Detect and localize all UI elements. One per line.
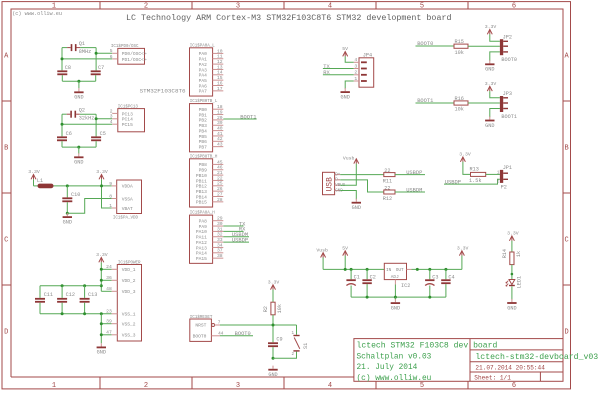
wire ADJ to gnd rail — [394, 285, 396, 298]
ground — [97, 343, 106, 355]
resistor R14 — [510, 252, 514, 265]
wire C11 stem top — [39, 286, 41, 298]
svg-text:PB4: PB4 — [199, 128, 208, 134]
svg-text:D: D — [4, 329, 8, 337]
wire GND pin down — [340, 191, 356, 200]
capacitor C13 — [80, 298, 90, 303]
wire C12 stem top — [61, 286, 63, 298]
svg-text:USBDP: USBDP — [232, 237, 248, 243]
svg-text:32: 32 — [217, 232, 223, 238]
ground — [485, 60, 494, 72]
svg-text:8MHz: 8MHz — [79, 49, 91, 55]
title block outer box — [354, 339, 563, 382]
wire L1 to VDDA pin — [54, 185, 112, 187]
wire VSS_2 — [101, 323, 111, 325]
svg-text:L1: L1 — [37, 178, 43, 184]
svg-text:PB11: PB11 — [196, 178, 207, 184]
svg-text:34: 34 — [217, 242, 223, 248]
wire gnd rail — [62, 80, 95, 82]
svg-text:15: 15 — [217, 75, 223, 81]
svg-text:VDDA: VDDA — [122, 184, 133, 190]
junction — [77, 80, 80, 83]
svg-text:16: 16 — [217, 80, 223, 86]
supply 3.3V arrow for VDD — [96, 252, 108, 262]
svg-text:PA4: PA4 — [199, 73, 208, 79]
supply 3.3V arrow — [485, 81, 497, 91]
supply 3.3V arrow for VBAT — [96, 169, 108, 179]
svg-text:PB3: PB3 — [199, 123, 208, 129]
junction — [61, 123, 64, 126]
svg-text:21. July 2014: 21. July 2014 — [357, 364, 418, 372]
wire output rail — [412, 268, 462, 270]
wire 5V stem — [344, 256, 346, 270]
svg-text:45: 45 — [217, 159, 223, 165]
pin rows PA8-PA15 — [196, 216, 223, 262]
jumper JP2 — [500, 39, 508, 55]
pin ADJ stub — [394, 280, 396, 285]
switch S1 contacts — [293, 335, 299, 352]
svg-text:VBAT: VBAT — [122, 206, 133, 212]
svg-text:43: 43 — [217, 142, 223, 148]
svg-text:12: 12 — [217, 59, 223, 65]
resistor R2 — [271, 302, 275, 315]
svg-text:GND: GND — [507, 305, 516, 311]
svg-text:PA14: PA14 — [196, 251, 207, 257]
wire VDD_3 — [101, 290, 111, 292]
svg-text:PA10: PA10 — [196, 229, 207, 235]
wire C11 stem bottom — [39, 303, 41, 314]
svg-text:5: 5 — [110, 48, 113, 54]
svg-text:32kHz: 32kHz — [79, 116, 95, 122]
wire R2 to NRST node — [272, 315, 274, 343]
junction — [416, 268, 419, 271]
svg-text:PA12: PA12 — [196, 240, 207, 246]
svg-text:Sheet: 1/1: Sheet: 1/1 — [474, 375, 511, 382]
svg-text:PA3: PA3 — [199, 67, 208, 73]
svg-text:9: 9 — [109, 181, 112, 187]
USB pins D+ D- VBUS GND — [335, 173, 346, 193]
junction — [83, 312, 86, 315]
svg-text:PC13: PC13 — [122, 111, 133, 117]
svg-text:C2: C2 — [370, 275, 376, 281]
capacitor C11 — [35, 298, 45, 303]
svg-text:R12: R12 — [383, 196, 392, 202]
wire ground rail — [351, 296, 446, 298]
wire 3.3V to R13 — [463, 162, 471, 175]
wire OSC_IN horizontal — [62, 47, 67, 49]
wire VBUS to Vusb — [340, 164, 356, 186]
svg-text:18: 18 — [217, 104, 223, 110]
svg-text:VSS_2: VSS_2 — [122, 322, 136, 328]
wire C2 stem top — [366, 269, 368, 279]
connector JP4 box — [359, 58, 374, 87]
wire C2 to gnd rail — [366, 284, 368, 297]
title block right column row lines — [470, 349, 563, 351]
svg-text:PB0: PB0 — [199, 107, 208, 113]
svg-text:S1: S1 — [303, 343, 309, 349]
svg-text:C12: C12 — [66, 292, 75, 298]
svg-text:NRST: NRST — [195, 323, 206, 329]
junction — [95, 52, 98, 55]
pin rows PA0-PA7 — [199, 48, 224, 94]
svg-text:3.3V: 3.3V — [485, 81, 497, 87]
svg-text:IC1$PA_VDD: IC1$PA_VDD — [113, 216, 139, 221]
wire R13 to JP1 — [486, 173, 500, 175]
capacitor C2 — [362, 279, 371, 284]
svg-text:13: 13 — [217, 64, 223, 70]
regulator IC2 box — [384, 263, 406, 279]
svg-text:3: 3 — [110, 114, 113, 120]
title block divider vertical — [469, 339, 471, 382]
svg-text:VSS_3: VSS_3 — [122, 333, 136, 339]
svg-text:PA1: PA1 — [199, 57, 208, 63]
wire pin 1 to ground — [345, 81, 354, 89]
svg-text:VSS_1: VSS_1 — [122, 312, 136, 318]
ground — [74, 153, 83, 165]
wire right vertical to C7 — [95, 48, 97, 71]
wire net RX — [223, 230, 243, 232]
svg-text:D: D — [564, 329, 568, 337]
svg-text:4: 4 — [354, 57, 357, 63]
svg-text:6: 6 — [110, 54, 113, 60]
wire RX to pin 2 — [323, 74, 354, 76]
pin 44 stub — [211, 335, 220, 337]
wire net TX — [223, 225, 243, 227]
svg-text:GND: GND — [268, 372, 277, 378]
svg-text:5V: 5V — [342, 245, 348, 251]
svg-text:IC2: IC2 — [401, 283, 410, 289]
IC1 VDDA block box — [117, 180, 142, 214]
capacitor C5 — [91, 136, 101, 141]
junction — [61, 57, 64, 60]
wire left vertical to C8 — [61, 48, 63, 71]
capacitor C7 — [91, 70, 101, 75]
svg-text:Vusb: Vusb — [343, 155, 355, 161]
JP4 pins 1-4 — [354, 57, 367, 82]
svg-text:3.3V: 3.3V — [28, 169, 40, 175]
capacitor C3 polarized — [425, 279, 434, 285]
supply 5V arrow — [342, 46, 348, 56]
capacitor C10 — [62, 197, 72, 202]
svg-text:2: 2 — [144, 2, 148, 10]
wire 3.3V to R2 — [272, 290, 274, 303]
wire 3.3V to VBAT — [102, 179, 112, 208]
wire D- to R12 — [340, 180, 384, 192]
svg-text:8: 8 — [109, 193, 112, 199]
junction — [272, 324, 275, 327]
svg-text:22: 22 — [217, 175, 223, 181]
wire VDD_2 — [101, 279, 111, 281]
svg-text:PB10: PB10 — [196, 173, 207, 179]
svg-text:C9: C9 — [276, 337, 282, 343]
svg-text:C6: C6 — [66, 131, 72, 137]
IC1 PB0-PB7 block box — [190, 104, 213, 152]
wire VSS_3 — [101, 334, 111, 336]
svg-text:3.3V: 3.3V — [96, 252, 108, 258]
svg-text:3: 3 — [236, 2, 240, 10]
svg-text:31: 31 — [217, 226, 223, 232]
svg-text:(c) www.olliw.eu: (c) www.olliw.eu — [357, 375, 432, 383]
junction — [95, 117, 98, 120]
ground — [352, 199, 361, 211]
svg-text:C13: C13 — [88, 292, 97, 298]
svg-text:ADJ: ADJ — [391, 275, 399, 280]
svg-text:39: 39 — [217, 120, 223, 126]
pin rows PC13 PC14 PC15 — [110, 108, 133, 128]
svg-text:VDD_3: VDD_3 — [122, 289, 136, 295]
wire 3.3V VDD vertical — [100, 262, 102, 291]
svg-text:36: 36 — [106, 275, 112, 281]
resistor R13 — [471, 172, 486, 176]
svg-text:24: 24 — [106, 264, 112, 270]
wire C4 stem top — [445, 269, 447, 279]
wire 3.3V stem — [461, 256, 463, 270]
wire C9 to gnd node — [272, 347, 274, 358]
ground — [74, 88, 83, 100]
wire C6 to gnd rail — [61, 141, 63, 147]
svg-text:27: 27 — [217, 191, 223, 197]
svg-text:GND: GND — [352, 205, 361, 211]
svg-text:PB12: PB12 — [196, 184, 207, 190]
wire R16 to JP3 — [468, 102, 500, 104]
svg-text:C8: C8 — [65, 65, 71, 71]
junction — [61, 284, 64, 287]
junction — [272, 357, 275, 360]
wire 32k right horizontal — [80, 113, 96, 115]
wire gnd junction to VSSA — [67, 199, 111, 214]
svg-text:lctech STM32 F103C8 dev board: lctech STM32 F103C8 dev board — [357, 341, 498, 350]
wire TX to pin 3 — [323, 68, 354, 70]
svg-text:22: 22 — [384, 168, 390, 174]
wire R14 to LED1 — [511, 265, 513, 280]
junction — [366, 296, 369, 299]
ground — [268, 366, 277, 378]
svg-text:VBUS: VBUS — [335, 184, 346, 188]
svg-text:C5: C5 — [100, 131, 106, 137]
wire C13 stem top — [84, 286, 86, 298]
pin 7 stub — [215, 324, 220, 326]
svg-text:3.3V: 3.3V — [457, 245, 469, 251]
svg-text:R2: R2 — [263, 306, 269, 312]
wire OSC_OUT horizontal — [80, 47, 96, 49]
svg-text:21: 21 — [217, 170, 223, 176]
svg-text:OUT: OUT — [396, 268, 404, 273]
svg-text:GND: GND — [335, 189, 343, 193]
svg-text:4: 4 — [110, 119, 113, 125]
svg-text:28: 28 — [217, 197, 223, 203]
wire crystal left to PC15 pin — [62, 123, 112, 125]
junction — [100, 322, 103, 325]
svg-text:LC Technology ARM Cortex-M3 ST: LC Technology ARM Cortex-M3 STM32F103C8T… — [126, 13, 451, 23]
junction — [428, 296, 431, 299]
pin rows VDDA VSSA VBAT — [109, 181, 133, 212]
svg-text:PB13: PB13 — [196, 189, 207, 195]
IC1 RESET block box — [190, 319, 212, 341]
svg-text:USB: USB — [326, 177, 335, 192]
svg-text:C3: C3 — [432, 275, 438, 281]
svg-text:PB9: PB9 — [199, 168, 208, 174]
svg-text:GND: GND — [485, 67, 494, 73]
svg-text:C10: C10 — [71, 192, 80, 198]
frame column numbers — [52, 2, 516, 389]
svg-text:46: 46 — [217, 165, 223, 171]
pin rows VDD VSS — [106, 264, 136, 339]
svg-text:C: C — [564, 237, 568, 245]
wire net USBDP — [223, 241, 249, 243]
svg-text:21.07.2014 20:55:44: 21.07.2014 20:55:44 — [475, 364, 545, 371]
svg-text:23: 23 — [106, 309, 112, 315]
svg-text:BOOT1: BOOT1 — [240, 114, 256, 120]
junction — [394, 296, 397, 299]
resistor R15 — [454, 44, 468, 48]
capacitor C1 polarized — [346, 279, 355, 285]
wire crystal right to PC14 pin — [96, 118, 112, 120]
svg-text:GND: GND — [341, 94, 350, 100]
supply 3.3V arrow — [485, 24, 497, 34]
pin rows PB8-PB15 — [196, 159, 223, 205]
svg-text:10k: 10k — [277, 304, 283, 313]
IC1 PB8-PB15 block box — [190, 159, 213, 207]
svg-text:PC14: PC14 — [122, 117, 133, 123]
wire C5 to gnd rail — [95, 141, 97, 147]
junction — [66, 184, 69, 187]
svg-text:USBDP: USBDP — [406, 170, 422, 176]
diode LED1 — [506, 280, 515, 287]
jumper JP1 — [500, 170, 508, 183]
pin OUT stub — [407, 268, 412, 270]
wire switch to gnd node — [273, 352, 297, 359]
junction — [428, 268, 431, 271]
supply 5V arrow — [342, 245, 348, 255]
wire BOOT0 net — [220, 335, 253, 337]
junction — [444, 268, 447, 271]
svg-text:5: 5 — [420, 2, 424, 10]
svg-text:17: 17 — [217, 86, 223, 92]
svg-text:1: 1 — [109, 203, 112, 209]
wire VDD_1 — [101, 268, 111, 270]
junction — [66, 212, 69, 215]
svg-text:3.3V: 3.3V — [459, 152, 471, 158]
svg-text:lctech-stm32-devboard_v03: lctech-stm32-devboard_v03 — [475, 352, 598, 362]
svg-text:B: B — [564, 145, 568, 153]
svg-text:6: 6 — [512, 2, 516, 10]
svg-text:JP1: JP1 — [503, 165, 512, 171]
wire LED1 to ground — [511, 286, 513, 300]
resistor R11 — [384, 173, 395, 177]
svg-text:VSSA: VSSA — [122, 196, 133, 202]
svg-text:PA15: PA15 — [196, 256, 207, 262]
supply 3.3V arrow — [459, 152, 471, 162]
svg-text:4: 4 — [328, 2, 332, 10]
wire JP2 pin 3 to ground — [490, 52, 500, 61]
wire net USBDM — [223, 236, 249, 238]
capacitor C12 — [57, 298, 67, 303]
wire right vertical to C5 — [95, 114, 97, 136]
wire Vusb to rail — [322, 258, 324, 270]
junction — [350, 268, 353, 271]
svg-text:3.3V: 3.3V — [507, 231, 519, 237]
svg-text:Schaltplan v0.03: Schaltplan v0.03 — [357, 353, 432, 361]
wire C8 to gnd rail — [61, 75, 63, 81]
svg-text:C: C — [4, 237, 8, 245]
resistor R16 — [454, 101, 468, 105]
jumper JP3 — [500, 96, 508, 112]
svg-text:BOOT0: BOOT0 — [235, 331, 251, 337]
svg-text:1: 1 — [52, 2, 56, 10]
svg-text:3: 3 — [354, 63, 357, 69]
frame row letters — [4, 53, 569, 337]
wire VSS rail — [40, 313, 112, 315]
svg-text:R15: R15 — [455, 39, 464, 45]
svg-text:D-: D- — [335, 179, 340, 183]
wire R11 to USBDP label — [395, 174, 425, 176]
capacitor C9 — [268, 342, 278, 347]
IC1 PA0-PA7 block box — [190, 48, 213, 96]
wire C10 to gnd junction — [66, 202, 68, 213]
svg-text:D+: D+ — [335, 173, 341, 177]
ground — [341, 88, 350, 100]
svg-text:PB6: PB6 — [199, 139, 208, 145]
svg-text:PA2: PA2 — [199, 62, 208, 68]
junction — [511, 273, 514, 276]
svg-text:3.3V: 3.3V — [96, 169, 108, 175]
junction — [100, 268, 103, 271]
svg-text:PA0: PA0 — [199, 51, 208, 57]
connector X1 USB box — [323, 172, 335, 194]
ground — [63, 213, 72, 225]
svg-text:6: 6 — [512, 382, 516, 390]
svg-text:30: 30 — [217, 221, 223, 227]
junction — [100, 284, 103, 287]
svg-text:PD1/OSC<>: PD1/OSC<> — [122, 57, 147, 63]
svg-text:40: 40 — [217, 126, 223, 132]
wire 3.3V to JP3 pin 1 — [490, 91, 500, 98]
wire NRST net — [220, 324, 297, 326]
svg-text:VDD_2: VDD_2 — [122, 278, 136, 284]
svg-text:GND: GND — [63, 219, 72, 225]
wire C13 stem bottom — [84, 303, 86, 314]
wire crystal left to pin 6 — [62, 58, 112, 60]
junction — [100, 312, 103, 315]
svg-text:PB1: PB1 — [199, 112, 208, 118]
svg-text:3.3V: 3.3V — [268, 279, 280, 285]
svg-text:BOOT1: BOOT1 — [501, 114, 517, 120]
wire 32k left horizontal — [62, 113, 67, 115]
junction — [100, 333, 103, 336]
svg-text:LED1: LED1 — [517, 276, 523, 288]
svg-text:IN: IN — [386, 268, 392, 273]
capacitor C8 — [57, 70, 67, 75]
svg-text:BOOT0: BOOT0 — [501, 57, 517, 63]
wire NRST to switch — [296, 325, 298, 335]
svg-text:10: 10 — [217, 48, 223, 54]
svg-text:C1: C1 — [354, 275, 360, 281]
pin 5 stub — [112, 52, 118, 54]
svg-text:USBDM: USBDM — [406, 187, 422, 193]
wire VSS vertical — [100, 314, 102, 344]
svg-text:C11: C11 — [44, 292, 53, 298]
wire 3.3V to R14 — [511, 241, 513, 252]
pin 6 stub — [112, 58, 118, 60]
svg-text:33: 33 — [217, 237, 223, 243]
wire C1 stem top — [350, 269, 352, 279]
capacitor C4 — [441, 279, 450, 284]
svg-text:26: 26 — [217, 186, 223, 192]
svg-text:PA5: PA5 — [199, 78, 208, 84]
svg-text:Q1: Q1 — [79, 41, 85, 47]
wire gnd stem — [394, 297, 396, 300]
svg-text:C4: C4 — [448, 275, 454, 281]
